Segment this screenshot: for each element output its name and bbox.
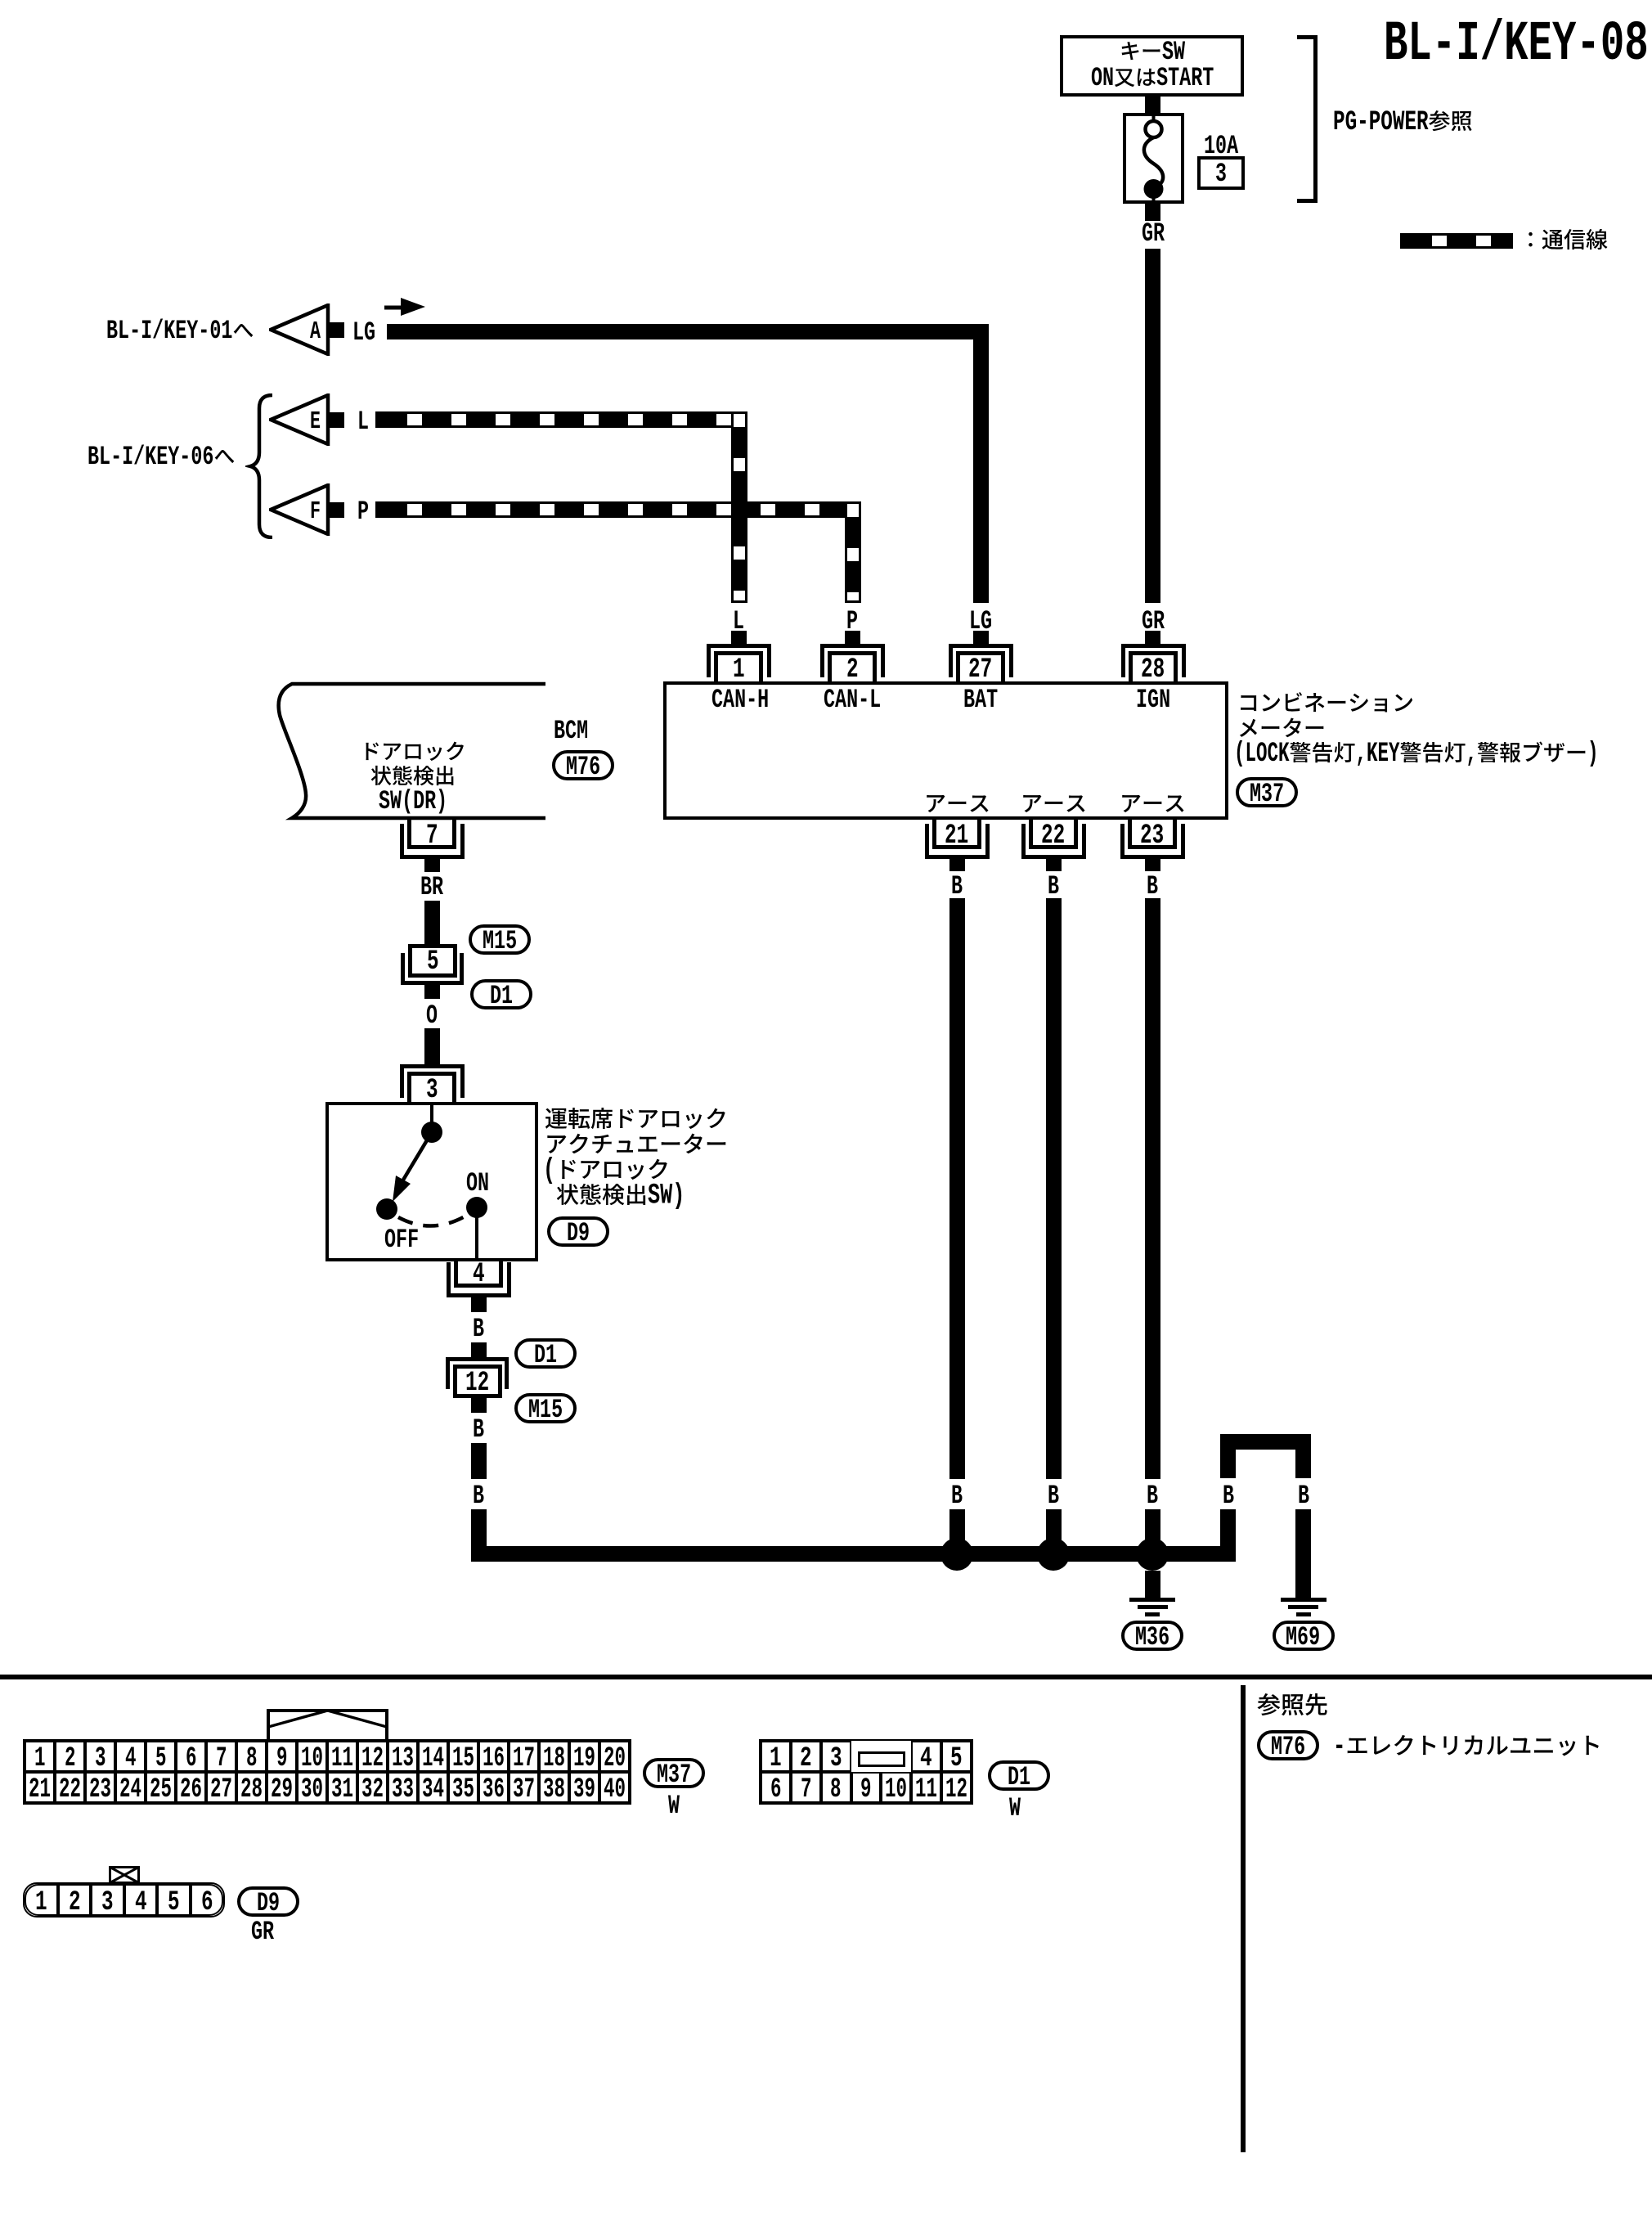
svg-text:5: 5 — [950, 1743, 963, 1774]
wire color L at pin 1 — [733, 609, 744, 633]
driver door lock actuator D9 — [325, 1102, 538, 1261]
wire color BR — [420, 875, 443, 899]
svg-text:13: 13 — [392, 1743, 414, 1774]
svg-text:24: 24 — [119, 1774, 141, 1805]
svg-text:D9: D9 — [567, 1218, 590, 1248]
svg-text:6: 6 — [201, 1887, 213, 1918]
pin name CAN-L — [824, 688, 881, 712]
svg-text:O: O — [426, 1000, 438, 1031]
svg-text:28: 28 — [240, 1774, 263, 1805]
wire stub pin 21 — [949, 859, 965, 871]
svg-text:D1: D1 — [490, 981, 513, 1011]
svg-text:40: 40 — [604, 1774, 626, 1805]
wire B from pin 21 — [949, 898, 965, 1479]
svg-text:B: B — [473, 1481, 484, 1511]
connector id D1 face — [988, 1760, 1050, 1791]
connector id M76 — [552, 750, 614, 780]
svg-text:36: 36 — [483, 1774, 505, 1805]
key switch source box — [1060, 35, 1244, 97]
svg-text:B: B — [1223, 1481, 1234, 1511]
separator line — [0, 1675, 1652, 1679]
meter annotation — [1237, 691, 1414, 716]
wire color LG — [352, 321, 375, 344]
svg-text:2: 2 — [800, 1743, 812, 1774]
fuse rating 10A — [1204, 134, 1238, 158]
svg-text:4: 4 — [135, 1887, 147, 1918]
wire color B — [1147, 874, 1158, 898]
svg-text:B: B — [951, 1481, 963, 1511]
svg-text:25: 25 — [150, 1774, 172, 1805]
svg-text:7: 7 — [801, 1774, 812, 1805]
connector id D9 face — [237, 1886, 299, 1917]
wire B from pin 22 — [1046, 898, 1062, 1479]
svg-text:ON: ON — [466, 1168, 489, 1198]
svg-text:M15: M15 — [528, 1395, 563, 1425]
fuse F3 10A — [1123, 113, 1184, 204]
combination meter unit M37 — [663, 681, 1228, 820]
svg-text:B: B — [1048, 1481, 1059, 1511]
svg-text:4: 4 — [473, 1259, 485, 1290]
svg-text:GR: GR — [251, 1917, 274, 1947]
svg-text:23: 23 — [1140, 821, 1164, 852]
svg-text:LG: LG — [352, 317, 375, 348]
wire B from pin 23 — [1145, 898, 1160, 1479]
wire stub pin 2 — [845, 631, 860, 644]
wire color B — [473, 1317, 484, 1341]
svg-text:27: 27 — [210, 1774, 232, 1805]
inline connector 5 (M15/D1) — [401, 953, 405, 985]
junction ground 1 — [940, 1538, 973, 1571]
wire LG horizontal — [387, 324, 989, 339]
svg-text:4: 4 — [920, 1743, 932, 1774]
svg-text:11: 11 — [915, 1774, 937, 1805]
junction ground 2 — [1037, 1538, 1070, 1571]
svg-text:SW(DR): SW(DR) — [379, 786, 447, 816]
wire stub pin 4 — [471, 1297, 487, 1312]
brace — [245, 393, 275, 539]
wire B down to ground bus — [471, 1509, 487, 1562]
svg-text:IGN: IGN — [1136, 685, 1170, 715]
ground symbol M36 — [1129, 1598, 1175, 1602]
pin 7 BCM — [407, 845, 456, 849]
connector id D9 — [547, 1216, 609, 1247]
wire key-sw to fuse — [1145, 95, 1160, 115]
svg-text:37: 37 — [513, 1774, 535, 1805]
svg-text:(LOCK: (LOCK — [1234, 739, 1290, 770]
fuse number box 3 — [1197, 156, 1245, 190]
svg-text:21: 21 — [29, 1774, 51, 1805]
svg-text:OFF: OFF — [384, 1225, 419, 1255]
svg-text:CAN-H: CAN-H — [712, 685, 769, 715]
pin 22 ground — [1029, 845, 1078, 849]
title BL-I/KEY-08 — [1384, 20, 1649, 69]
svg-text:27: 27 — [968, 654, 992, 686]
pin 21 ground — [932, 845, 981, 849]
svg-text:P: P — [357, 497, 369, 527]
door lock status switch symbol — [325, 1102, 538, 1261]
ground id M36 — [1121, 1621, 1183, 1651]
svg-text:14: 14 — [422, 1743, 444, 1774]
svg-text:32: 32 — [361, 1774, 384, 1805]
pin 2 CAN-L — [820, 644, 885, 648]
connector color W — [1009, 1796, 1021, 1820]
svg-text:(: ( — [543, 1154, 555, 1187]
label earth pin21 — [924, 792, 990, 816]
wire B above connector 12 — [471, 1342, 487, 1357]
wire O to pin 3 — [424, 1028, 440, 1064]
svg-text:1: 1 — [35, 1887, 47, 1918]
connector id D1 — [470, 979, 532, 1009]
svg-text:F: F — [310, 498, 321, 526]
ground symbol M69 — [1281, 1598, 1327, 1602]
connector face M37 40-pin — [267, 1709, 388, 1742]
svg-text:,KEY: ,KEY — [1356, 739, 1400, 770]
wire color B — [473, 1418, 484, 1441]
svg-text:GR: GR — [1142, 218, 1165, 249]
svg-text:M69: M69 — [1286, 1622, 1320, 1652]
label earth pin23 — [1120, 792, 1186, 816]
svg-text:1: 1 — [733, 654, 745, 686]
svg-text:W: W — [1009, 1793, 1021, 1823]
svg-text:2: 2 — [846, 654, 859, 686]
svg-text:21: 21 — [945, 821, 968, 852]
svg-text:35: 35 — [452, 1774, 474, 1805]
connector id M15 — [469, 924, 531, 955]
svg-text:M76: M76 — [566, 752, 600, 782]
keyway bowtie D9 — [109, 1866, 140, 1884]
pin name CAN-H — [712, 688, 769, 712]
wire color B — [1048, 1484, 1059, 1508]
wire stub pin 7 — [424, 859, 440, 872]
svg-text:30: 30 — [301, 1774, 323, 1805]
svg-text:28: 28 — [1141, 654, 1165, 686]
pin name IGN — [1136, 688, 1170, 712]
svg-text:12: 12 — [945, 1774, 967, 1805]
connector arrow A to BL-I/KEY-01 — [269, 303, 331, 356]
wire P communication vertical — [845, 501, 861, 603]
svg-text:BAT: BAT — [963, 685, 998, 715]
connector arrow E to BL-I/KEY-06 — [269, 393, 331, 446]
connector face D1 12-pin — [759, 1739, 973, 1805]
svg-text:3: 3 — [830, 1743, 842, 1774]
svg-text:1: 1 — [770, 1743, 782, 1774]
connector color W — [668, 1794, 680, 1818]
svg-text:5: 5 — [155, 1743, 167, 1774]
svg-text:BL-I/KEY-06: BL-I/KEY-06 — [88, 442, 213, 472]
svg-text:11: 11 — [331, 1743, 353, 1774]
svg-text:31: 31 — [331, 1774, 353, 1805]
BCM door lock status detect switch box — [270, 677, 552, 825]
switch position ON — [466, 1171, 489, 1195]
wire color P at pin 2 — [846, 609, 858, 633]
svg-text:ON: ON — [1091, 63, 1114, 93]
svg-text:PG-POWER: PG-POWER — [1333, 107, 1429, 138]
wire color B — [473, 1484, 484, 1508]
wire stub pin 28 — [1145, 631, 1160, 644]
wire stub pin 23 — [1145, 859, 1160, 871]
wire color L — [357, 410, 369, 434]
svg-text:M37: M37 — [1250, 779, 1284, 809]
wire to ground M36 — [1145, 1571, 1160, 1598]
connector pin 12 box — [453, 1365, 502, 1398]
svg-text:B: B — [473, 1314, 484, 1344]
svg-text:3: 3 — [95, 1743, 106, 1774]
wire B lower segment pin 22 — [1046, 1509, 1062, 1554]
svg-text:17: 17 — [513, 1743, 535, 1774]
svg-text:10: 10 — [301, 1743, 323, 1774]
svg-text:34: 34 — [422, 1774, 444, 1805]
wire fuse out stub — [1145, 203, 1160, 221]
wire color B — [951, 874, 963, 898]
pin name BAT — [963, 688, 998, 712]
actuator annotation — [545, 1107, 728, 1132]
svg-text:23: 23 — [89, 1774, 111, 1805]
pin 1 CAN-H — [707, 644, 771, 648]
svg-text:L: L — [357, 407, 369, 437]
svg-text:39: 39 — [573, 1774, 595, 1805]
svg-text:BR: BR — [420, 872, 443, 902]
svg-text:22: 22 — [59, 1774, 81, 1805]
keyway D1 — [858, 1751, 905, 1767]
wire stub pin 1 — [731, 631, 747, 644]
wire L communication horizontal — [375, 411, 747, 428]
svg-text:BL-I/KEY-08: BL-I/KEY-08 — [1384, 12, 1649, 76]
pin 3 door lock actuator — [400, 1064, 465, 1068]
svg-text:SW): SW) — [648, 1180, 685, 1212]
svg-text:M76: M76 — [1271, 1732, 1305, 1762]
connector id D1 lower — [514, 1338, 577, 1369]
BCM label — [554, 719, 588, 743]
wire color O — [426, 1004, 438, 1027]
connector face D9 6-pin — [23, 1882, 225, 1918]
pin 4 door lock actuator — [454, 1284, 503, 1288]
svg-text:33: 33 — [392, 1774, 414, 1805]
svg-text:W: W — [668, 1791, 680, 1821]
svg-text:8: 8 — [246, 1743, 258, 1774]
wire stub pin 22 — [1046, 859, 1062, 871]
connector color GR — [251, 1920, 274, 1944]
pin 23 ground — [1128, 845, 1177, 849]
svg-text:5: 5 — [427, 946, 439, 978]
svg-text:E: E — [310, 408, 321, 436]
svg-text:1: 1 — [34, 1743, 46, 1774]
connector id M37 — [1236, 777, 1298, 807]
connector pin 5 box — [408, 944, 457, 978]
PG-POWER reference bracket — [1313, 35, 1318, 203]
wire stub below connector 5 — [424, 985, 440, 999]
wire color LG at pin 27 — [969, 609, 992, 633]
destination BL-I/KEY-01 — [106, 319, 254, 343]
wire GR ignition to pin 28 — [1145, 249, 1160, 603]
svg-text:5: 5 — [168, 1887, 180, 1918]
junction ground 3 — [1136, 1538, 1169, 1571]
wire color GR — [1142, 222, 1165, 245]
wire L communication vertical — [731, 411, 747, 603]
wire B lower segment pin 21 — [949, 1509, 965, 1554]
wire stub pin 27 — [973, 631, 989, 644]
svg-text:B: B — [473, 1414, 484, 1445]
wire color B — [1048, 874, 1059, 898]
svg-text:CAN-L: CAN-L — [824, 685, 881, 715]
svg-text:26: 26 — [180, 1774, 202, 1805]
svg-text:B: B — [1298, 1481, 1309, 1511]
svg-text:BL-I/KEY-01: BL-I/KEY-01 — [106, 316, 232, 346]
wire color B — [951, 1484, 963, 1508]
svg-text:2: 2 — [69, 1887, 81, 1918]
svg-text:START: START — [1156, 63, 1214, 93]
direction arrow — [384, 296, 427, 317]
connector arrow F to BL-I/KEY-06 — [269, 483, 331, 536]
wire LG vertical to pin 27 — [973, 324, 989, 603]
svg-text:4: 4 — [125, 1743, 137, 1774]
svg-text:16: 16 — [483, 1743, 505, 1774]
connector id M37 face — [643, 1758, 705, 1788]
svg-text:6: 6 — [770, 1774, 782, 1805]
wire B left segment — [471, 1443, 487, 1479]
svg-text:B: B — [1147, 871, 1158, 901]
svg-text:38: 38 — [543, 1774, 565, 1805]
svg-text:-: - — [1333, 1729, 1345, 1763]
wire BR — [424, 901, 440, 944]
svg-text:19: 19 — [573, 1743, 595, 1774]
svg-text:B: B — [1048, 871, 1059, 901]
wire B lower segment pin 23 — [1145, 1509, 1160, 1554]
svg-text:29: 29 — [271, 1774, 293, 1805]
legend communication line — [1400, 233, 1513, 249]
svg-text:9: 9 — [276, 1743, 288, 1774]
pin 27 BAT — [949, 644, 1013, 648]
svg-text:12: 12 — [465, 1368, 489, 1399]
label earth pin22 — [1021, 792, 1087, 816]
ground bus horizontal — [471, 1546, 1237, 1562]
svg-text:M37: M37 — [657, 1760, 691, 1790]
reference heading — [1257, 1693, 1328, 1719]
ground loop to M69 — [1220, 1434, 1311, 1450]
pin 28 IGN — [1121, 644, 1186, 648]
ground id M69 — [1273, 1621, 1335, 1651]
svg-text:BCM: BCM — [554, 716, 588, 746]
wire color B — [1147, 1484, 1158, 1508]
svg-text:A: A — [310, 318, 321, 346]
switch position OFF — [384, 1228, 419, 1252]
svg-text:9: 9 — [860, 1774, 872, 1805]
connector id M15 lower — [514, 1393, 577, 1423]
svg-text:2: 2 — [65, 1743, 76, 1774]
svg-text:6: 6 — [186, 1743, 197, 1774]
svg-text:7: 7 — [426, 821, 438, 852]
svg-text:22: 22 — [1041, 821, 1065, 852]
svg-text:D9: D9 — [257, 1888, 280, 1918]
svg-text:D1: D1 — [1008, 1762, 1030, 1792]
svg-text:7: 7 — [216, 1743, 227, 1774]
wire color P — [357, 500, 369, 524]
svg-text:D1: D1 — [534, 1340, 557, 1370]
svg-text:,: , — [1466, 739, 1478, 770]
svg-text:M36: M36 — [1135, 1622, 1169, 1652]
svg-text:8: 8 — [830, 1774, 842, 1805]
svg-text:3: 3 — [101, 1887, 114, 1918]
wire P communication horizontal — [375, 501, 860, 518]
connector id M76 reference — [1257, 1730, 1319, 1760]
svg-text:): ) — [1587, 739, 1599, 770]
wire color B — [1298, 1484, 1309, 1508]
wire color B — [1223, 1484, 1234, 1508]
svg-text:3: 3 — [1215, 159, 1227, 189]
wire color GR at pin 28 — [1142, 609, 1165, 633]
svg-text:12: 12 — [361, 1743, 384, 1774]
wire stub below connector 12 — [471, 1398, 487, 1413]
svg-text:10: 10 — [885, 1774, 907, 1805]
svg-text:18: 18 — [543, 1743, 565, 1774]
destination BL-I/KEY-06 — [88, 445, 235, 469]
svg-text:20: 20 — [604, 1743, 626, 1774]
svg-text:B: B — [951, 871, 963, 901]
inline connector 12 (D1/M15) — [446, 1357, 509, 1361]
svg-text:B: B — [1147, 1481, 1158, 1511]
svg-text:M15: M15 — [483, 926, 517, 956]
svg-text:15: 15 — [452, 1743, 474, 1774]
reference column divider — [1241, 1685, 1246, 2152]
